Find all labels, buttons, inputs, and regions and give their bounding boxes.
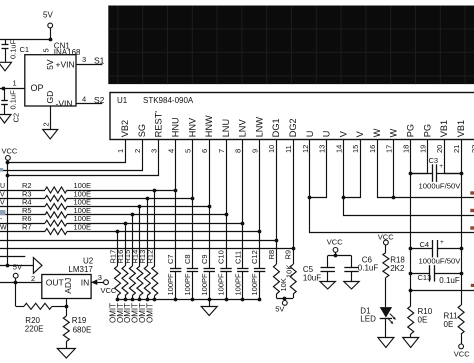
- junction C13/VB1: [460, 272, 464, 276]
- svg-text:LED: LED: [360, 314, 376, 323]
- capacitor C5: [321, 256, 335, 282]
- resistor R4: [45, 204, 67, 210]
- svg-text:100PF: 100PF: [233, 273, 242, 296]
- wire R13 stub: [147, 198, 149, 266]
- net marker U (right edge): [470, 226, 474, 229]
- capacitor C7: [170, 269, 181, 300]
- wire row HNW left segment: [0, 206, 45, 208]
- wire R16 stub: [125, 223, 127, 266]
- wire C4 left: [411, 248, 433, 250]
- svg-text:5: 5: [42, 48, 51, 52]
- wire U phase (exits right): [310, 198, 474, 233]
- capacitor C2: [1, 89, 8, 115]
- junction DG2/R9: [292, 247, 296, 251]
- svg-text:LNV: LNV: [238, 119, 248, 138]
- wire R17 stub: [117, 232, 119, 267]
- wire 5V rail to C1 (exits left): [0, 39, 50, 41]
- wire pin 10 DG1 vertical: [276, 140, 278, 265]
- svg-text:VB1: VB1: [439, 120, 449, 137]
- svg-text:680E: 680E: [73, 325, 92, 334]
- svg-text:OMIT: OMIT: [108, 303, 117, 323]
- svg-text:R19: R19: [72, 316, 87, 325]
- IC U1 STK984-090A box: [110, 93, 474, 140]
- wire pin 6 vertical: [209, 140, 211, 269]
- wire row to pin 6: [67, 206, 209, 208]
- wire C4 right: [437, 248, 461, 250]
- node VCC (above R18): [378, 232, 394, 245]
- resistor R18: [383, 245, 389, 278]
- junction pin1/C2: [2, 87, 6, 91]
- svg-text:DG2: DG2: [288, 118, 298, 137]
- wire ground rail (gate caps): [118, 299, 260, 301]
- junction R13 bottom: [146, 298, 150, 302]
- svg-text:10K: 10K: [285, 265, 294, 278]
- wire LM317 OUT (pin 2, exits left): [0, 282, 42, 284]
- junction VCC rail bottom: [6, 264, 10, 268]
- resistor R9: [290, 264, 296, 298]
- resistor R8: [273, 264, 279, 298]
- resistor R20: [16, 282, 67, 309]
- junction C13/PG: [409, 272, 413, 276]
- junction R12 bottom: [153, 298, 157, 302]
- node 5V terminal: [13, 273, 18, 282]
- op-amp CN1 INA168 box: [25, 55, 76, 106]
- junction U pair: [308, 196, 312, 200]
- svg-text:9: 9: [250, 149, 259, 153]
- svg-text:PG: PG: [422, 124, 432, 137]
- label GD-VIN inside CN1: [45, 91, 72, 109]
- wire pin 1 OP input (exits left): [0, 88, 25, 90]
- wire row HNU left segment: [0, 190, 45, 192]
- junction R17 top: [116, 230, 120, 234]
- node VCC (LM317 input): [101, 280, 117, 295]
- junction R17 bottom: [116, 298, 120, 302]
- wire R15 stub: [132, 215, 134, 266]
- node VCC (below R11): [454, 344, 470, 358]
- wire row to pin 9: [67, 231, 260, 233]
- svg-text:ADJ: ADJ: [63, 278, 73, 294]
- svg-text:5V: 5V: [45, 59, 55, 70]
- svg-text:1: 1: [116, 149, 125, 153]
- junction R8/R9 5V: [283, 297, 287, 301]
- svg-text:U: U: [322, 131, 332, 138]
- svg-text:11: 11: [284, 145, 293, 153]
- junction C9 bottom: [208, 298, 212, 302]
- svg-text:C8: C8: [183, 254, 192, 264]
- wire pin 21 VB1 vertical: [461, 140, 463, 174]
- svg-text:C7: C7: [166, 254, 175, 264]
- svg-text:10: 10: [267, 145, 276, 153]
- resistor R15 (OMIT): [129, 266, 135, 300]
- junction VB1: [460, 172, 464, 176]
- junction R16 bottom: [124, 298, 128, 302]
- wire pin 5 vertical: [192, 140, 194, 269]
- junction R16 top: [124, 222, 128, 226]
- junction pin 8 row: [241, 222, 245, 226]
- svg-text:HNV: HNV: [187, 117, 197, 137]
- wire pin 19 PG vertical: [411, 140, 428, 174]
- svg-text:220E: 220E: [25, 324, 44, 333]
- svg-text:0E: 0E: [444, 320, 454, 329]
- resistor R13 (OMIT): [144, 266, 150, 300]
- wire row LNW left segment: [0, 231, 45, 233]
- wire pin 1 VB2 to VCC: [8, 140, 126, 163]
- svg-text:+VIN: +VIN: [56, 60, 75, 70]
- resistor R19: [63, 306, 69, 348]
- module photo grid: [108, 6, 474, 85]
- svg-text:4: 4: [167, 149, 176, 153]
- svg-text:V: V: [355, 130, 365, 137]
- capacitor C13: [430, 265, 435, 281]
- junction C11 bottom: [241, 298, 245, 302]
- svg-text:C4: C4: [420, 240, 430, 249]
- svg-text:3: 3: [150, 149, 159, 153]
- svg-text:W: W: [0, 225, 7, 232]
- svg-text:14: 14: [334, 145, 343, 153]
- wire PG bottom (exits right): [411, 290, 474, 292]
- junction C10 bottom: [225, 298, 229, 302]
- svg-text:0.1uF: 0.1uF: [8, 39, 17, 59]
- net fragment row 4 (blue): [0, 210, 6, 215]
- junction C12 bottom: [258, 298, 262, 302]
- capacitor C3 (electrolytic): [433, 164, 437, 182]
- svg-text:19: 19: [418, 145, 427, 153]
- output arrow to LM317: [33, 258, 42, 274]
- junction pin 4 row: [174, 189, 178, 193]
- svg-text:S1: S1: [94, 56, 105, 66]
- svg-text:6: 6: [200, 149, 209, 153]
- svg-text:C10: C10: [217, 250, 226, 264]
- svg-text:18: 18: [402, 145, 411, 153]
- svg-text:0E: 0E: [418, 315, 428, 324]
- capacitor C11: [237, 269, 248, 300]
- svg-text:22: 22: [470, 145, 474, 153]
- wire pin 13 U vertical: [310, 140, 327, 198]
- ground below R19: [57, 349, 75, 359]
- node 5V (top supply terminal): [43, 11, 53, 28]
- wire PG to C3: [411, 173, 433, 175]
- wire W phase (exits right): [394, 197, 474, 199]
- svg-text:0.1uF: 0.1uF: [358, 263, 379, 272]
- svg-text:LNW: LNW: [254, 117, 264, 138]
- node VCC (left rail): [2, 146, 18, 160]
- svg-text:4: 4: [82, 95, 86, 104]
- net marker PG (right edge): [471, 284, 474, 287]
- resistor R10: [408, 290, 414, 337]
- wire LM317 IN (pin 3) to VCC: [91, 279, 104, 285]
- svg-text:100PF: 100PF: [166, 273, 175, 296]
- svg-text:HNU: HNU: [171, 117, 181, 137]
- svg-text:+: +: [439, 163, 443, 170]
- svg-text:100PF: 100PF: [217, 273, 226, 296]
- ground below gate caps: [201, 300, 217, 316]
- svg-text:16: 16: [368, 145, 377, 153]
- junction W pair: [392, 196, 396, 200]
- resistor R11: [458, 305, 464, 344]
- node 5V (pull-up, below R8/R9): [275, 298, 287, 314]
- ground below D1: [378, 338, 394, 348]
- svg-text:1: 1: [13, 79, 17, 88]
- svg-text:15: 15: [351, 145, 360, 153]
- junction C4/VB1: [460, 247, 464, 251]
- wire 5V terminal to junction: [50, 28, 52, 40]
- resistor R14 (OMIT): [137, 266, 143, 300]
- capacitor C6: [344, 256, 358, 282]
- resistor R7: [45, 229, 67, 235]
- svg-text:C1: C1: [20, 45, 30, 54]
- svg-text:17: 17: [385, 145, 394, 153]
- svg-text:100PF: 100PF: [200, 273, 209, 296]
- wire pin 7 vertical: [226, 140, 228, 269]
- wire C13 left: [411, 273, 430, 275]
- net stub SG (left edge): [0, 168, 3, 172]
- svg-text:S2: S2: [94, 95, 105, 105]
- wire pin 8 vertical: [242, 140, 244, 269]
- wire pin 2 of CN1 to ground: [50, 106, 52, 130]
- net marker W (right edge): [470, 191, 474, 194]
- junction R13 top: [146, 197, 150, 201]
- resistor R12 (OMIT): [152, 266, 158, 300]
- wire R8/R9 bottoms join: [276, 298, 293, 300]
- net marker V (right edge): [470, 209, 474, 212]
- U1 pin name labels: [120, 111, 466, 138]
- wire stub (left edge): [0, 256, 25, 258]
- svg-text:13: 13: [318, 145, 327, 153]
- svg-text:21: 21: [452, 145, 461, 153]
- wire V phase (exits right): [344, 198, 474, 216]
- junction C4/PG: [409, 247, 413, 251]
- U1 pin number labels: [116, 145, 474, 153]
- svg-text:5V: 5V: [43, 11, 53, 20]
- svg-text:VCC: VCC: [454, 349, 470, 358]
- svg-text:C9: C9: [200, 254, 209, 264]
- svg-text:V: V: [0, 191, 5, 198]
- svg-text:0.1uF: 0.1uF: [8, 90, 17, 110]
- wire VCC to C5/C6: [328, 252, 352, 255]
- svg-text:5V: 5V: [13, 263, 22, 272]
- label 5V+VIN inside CN1: [45, 59, 74, 70]
- svg-text:100E: 100E: [74, 223, 92, 232]
- capacitor C4 (electrolytic): [433, 240, 438, 257]
- wire pin 11 DG2 vertical: [293, 140, 295, 265]
- wire VB1 rail vertical: [461, 173, 463, 305]
- wire row to pin 4: [67, 190, 176, 192]
- svg-text:IN: IN: [81, 278, 90, 288]
- junction 5V rail: [49, 38, 53, 42]
- svg-text:VB1: VB1: [456, 120, 466, 137]
- wire C3 to VB1: [437, 173, 461, 175]
- wire R14 stub: [139, 207, 141, 266]
- ground below CN1: [43, 130, 58, 140]
- resistor R17 (OMIT): [115, 266, 121, 300]
- svg-text:C12: C12: [250, 250, 259, 264]
- junction R12 top: [153, 189, 157, 193]
- svg-text:7: 7: [217, 149, 226, 153]
- svg-text:VB2: VB2: [120, 120, 130, 137]
- junction OUT/R20: [14, 281, 18, 285]
- junction C8 bottom: [191, 298, 195, 302]
- wire pin 14 V vertical: [343, 140, 345, 198]
- ground below C2: [0, 115, 11, 124]
- svg-text:V: V: [0, 200, 5, 207]
- svg-text:C11: C11: [233, 251, 242, 264]
- resistor R3: [45, 195, 67, 201]
- capacitor C1: [2, 39, 9, 62]
- svg-text:LM317: LM317: [68, 265, 93, 274]
- wire pin 2 SG (exits left): [0, 140, 143, 171]
- wire pin 3 S1: [76, 64, 102, 66]
- module photo (black block): [108, 6, 474, 85]
- svg-text:HNW: HNW: [204, 115, 214, 137]
- svg-text:U1: U1: [117, 96, 128, 105]
- svg-text:R17: R17: [108, 250, 117, 264]
- svg-text:C13: C13: [418, 273, 432, 282]
- svg-text:REST': REST': [154, 111, 164, 138]
- svg-text:W: W: [389, 128, 399, 137]
- svg-text:R7: R7: [22, 223, 32, 232]
- wire pin 20 VB1 vertical: [445, 140, 462, 174]
- svg-text:R9: R9: [284, 250, 293, 260]
- wire row to pin 7: [67, 214, 226, 216]
- wire pin 9 vertical: [259, 140, 261, 269]
- ground below R10: [403, 338, 419, 348]
- ground below C1: [0, 62, 12, 71]
- svg-text:1000uF/50V: 1000uF/50V: [419, 256, 462, 265]
- wire pin 18 PG vertical: [410, 140, 412, 174]
- svg-text:W: W: [372, 128, 382, 137]
- svg-text:5: 5: [183, 149, 192, 153]
- capacitor C9: [204, 269, 215, 300]
- junction R15 top: [131, 213, 135, 217]
- svg-text:20: 20: [435, 145, 444, 153]
- svg-text:VCC: VCC: [2, 146, 18, 155]
- wire pin 15 V vertical: [344, 140, 361, 198]
- svg-text:2: 2: [31, 274, 35, 283]
- svg-text:2K2: 2K2: [390, 264, 405, 273]
- wire R12 stub: [154, 190, 156, 266]
- svg-text:U: U: [0, 183, 5, 190]
- svg-text:1000uF/50V: 1000uF/50V: [419, 181, 462, 190]
- wire row to pin 5: [67, 198, 192, 200]
- node VCC (above C5/C6): [327, 238, 343, 253]
- svg-text:2: 2: [133, 149, 142, 153]
- capacitor C8: [187, 269, 198, 300]
- wire pin 4 vertical: [175, 140, 177, 269]
- svg-text:+: +: [440, 239, 444, 246]
- junction PG: [409, 172, 413, 176]
- junction pin 6 row: [208, 205, 212, 209]
- wire row LNV left segment: [0, 223, 45, 225]
- svg-text:8: 8: [234, 149, 243, 153]
- wire LM317 ADJ (pin 1): [66, 299, 68, 307]
- wire R18 to D1: [385, 278, 387, 308]
- svg-text:12: 12: [301, 145, 310, 153]
- wire pin 3 REST to VCC: [8, 140, 159, 176]
- wire VCC rail to output arrow: [0, 265, 33, 267]
- svg-text:5V: 5V: [275, 305, 284, 314]
- svg-text:C3: C3: [429, 156, 439, 165]
- wire pin 12 U vertical: [309, 140, 311, 198]
- resistor R16 (OMIT): [122, 266, 128, 300]
- svg-text:OUT: OUT: [46, 278, 64, 288]
- svg-text:2: 2: [41, 122, 50, 126]
- svg-text:V: V: [338, 130, 348, 137]
- junction VCC/VB2: [6, 161, 10, 165]
- svg-text:STK984-090A: STK984-090A: [143, 96, 194, 105]
- svg-text:3: 3: [82, 55, 86, 64]
- svg-text:PG: PG: [406, 124, 416, 137]
- wire row to pin 8: [67, 223, 243, 225]
- wire C13 right: [435, 273, 462, 275]
- svg-text:-VIN: -VIN: [56, 98, 73, 108]
- ground below C5: [320, 282, 336, 290]
- svg-text:R8: R8: [267, 250, 276, 260]
- diode D1 LED: [380, 307, 396, 324]
- junction R14 bottom: [138, 298, 142, 302]
- junction DG1/R8: [275, 239, 279, 243]
- resistor R2: [45, 187, 67, 193]
- wire row LNU left segment: [0, 214, 45, 216]
- svg-text:0.1uF: 0.1uF: [439, 276, 460, 285]
- svg-text:DG1: DG1: [271, 118, 281, 137]
- junction PG/R10: [409, 289, 413, 293]
- svg-text:SG: SG: [137, 124, 147, 137]
- svg-text:C2: C2: [12, 113, 21, 123]
- wire bus DG2 (exits left): [0, 248, 293, 250]
- wire pin 16 W vertical: [378, 140, 394, 198]
- resistor R6: [45, 220, 67, 226]
- regulator U2 LM317 box: [42, 275, 91, 299]
- ground below C6: [344, 282, 359, 290]
- svg-text:LNU: LNU: [221, 119, 231, 137]
- svg-text:3: 3: [98, 273, 102, 282]
- wire bus DG1 (exits left): [0, 240, 276, 242]
- svg-text:VCC: VCC: [327, 238, 343, 247]
- svg-text:10K: 10K: [279, 278, 288, 291]
- svg-text:U: U: [305, 131, 315, 138]
- capacitor C10: [220, 269, 231, 300]
- svg-text:VCC: VCC: [101, 286, 117, 295]
- wire row HNV left segment: [0, 198, 45, 200]
- junction pin 7 row: [225, 213, 229, 217]
- junction VCC/C5C6: [334, 254, 338, 258]
- junction R15 bottom: [131, 298, 135, 302]
- junction pin 9 row: [258, 230, 262, 234]
- wire D1 to ground: [385, 319, 387, 338]
- svg-text:100PF: 100PF: [250, 273, 259, 296]
- svg-text:INA168: INA168: [54, 48, 81, 57]
- junction R14 top: [138, 205, 142, 209]
- resistor R5: [45, 212, 67, 218]
- junction pin 5 row: [191, 197, 195, 201]
- svg-text:OP: OP: [31, 83, 44, 93]
- wire PG rail vertical: [410, 173, 412, 290]
- junction V pair: [342, 196, 346, 200]
- svg-text:100PF: 100PF: [183, 273, 192, 296]
- junction C7 bottom: [174, 298, 178, 302]
- wire pin 17 W vertical: [393, 140, 395, 198]
- wire pin 4 S2: [76, 103, 102, 105]
- svg-text:10uF: 10uF: [303, 274, 321, 283]
- wire VCC vertical rail: [7, 160, 9, 265]
- capacitor C12: [254, 269, 265, 300]
- svg-text:GD: GD: [45, 91, 55, 104]
- junction ADJ/R20/R19: [65, 305, 69, 309]
- junction VCC/REST: [6, 174, 10, 178]
